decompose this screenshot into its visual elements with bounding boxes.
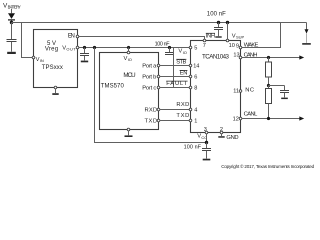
svg-text:Port b: Port b	[142, 74, 156, 80]
regulator U1 TPSxxx box	[34, 30, 78, 88]
svg-text:EN: EN	[68, 34, 75, 40]
wire VCC feed down and right	[95, 48, 207, 143]
wire battery rail	[12, 22, 307, 24]
wire EN net TPS EN to TCAN INH	[79, 37, 205, 40]
svg-text:IO: IO	[128, 57, 132, 62]
svg-text:14: 14	[193, 64, 199, 70]
svg-text:100 nF: 100 nF	[184, 145, 202, 151]
pin VOUT of U1	[62, 45, 76, 51]
pin 10 VSUP	[226, 39, 229, 42]
ground under C3	[215, 36, 221, 37]
svg-text:8: 8	[194, 86, 197, 92]
svg-text:Copyright © 2017, Texas Instru: Copyright © 2017, Texas Instruments Inco…	[221, 163, 314, 169]
wire MCU VIO drop	[128, 48, 130, 52]
wire WAKE to battery rail	[242, 23, 281, 48]
svg-text:7: 7	[203, 43, 206, 49]
node dot CANH termination	[267, 56, 270, 59]
pin 6 EN	[189, 75, 192, 78]
node VBATTERY label	[3, 2, 21, 9]
svg-text:100 nF: 100 nF	[155, 41, 171, 47]
capacitor C1 input	[11, 23, 13, 40]
wire diode to rail	[11, 21, 13, 23]
pin 7 INH	[203, 39, 206, 42]
wire TXD net	[160, 120, 189, 122]
pin 2 GND	[220, 131, 223, 134]
svg-text:4: 4	[194, 108, 197, 114]
node dot VCC rail	[205, 141, 208, 144]
svg-text:GND: GND	[226, 135, 238, 141]
ground under MCU	[125, 135, 133, 137]
svg-text:11: 11	[233, 88, 239, 94]
pin 12 CANL	[239, 117, 242, 120]
svg-text:TPSxxx: TPSxxx	[42, 65, 63, 71]
wire Port a to STB	[160, 65, 189, 67]
capacitor C3 battery	[218, 23, 220, 28]
svg-text:MCU: MCU	[123, 72, 135, 79]
wire nFAULT pull-up riser	[173, 48, 175, 88]
pin 1 TXD	[189, 119, 192, 122]
ground under U1	[52, 93, 58, 95]
wire VSUP drop	[227, 23, 229, 40]
svg-text:TMS570: TMS570	[101, 83, 125, 89]
svg-text:2: 2	[220, 127, 223, 133]
wire VCC pin to rail	[206, 134, 208, 143]
svg-text:EN: EN	[180, 71, 188, 77]
wire CANL bus	[242, 118, 300, 120]
node dot battery cap	[217, 21, 220, 24]
svg-text:13: 13	[233, 53, 239, 59]
wire RXD net	[160, 109, 189, 111]
switch arrow	[305, 29, 309, 33]
svg-text:3: 3	[204, 127, 207, 133]
node dot C2	[83, 46, 86, 49]
wire VIN branch	[22, 23, 33, 58]
arrow CANL	[299, 116, 304, 120]
svg-text:INH: INH	[206, 33, 215, 39]
wire Port c to nFAULT	[160, 87, 189, 89]
node battery junction	[10, 21, 13, 24]
node dot VSUP	[226, 21, 229, 24]
svg-text:TCAN1043: TCAN1043	[202, 53, 230, 60]
svg-text:1: 1	[194, 119, 197, 125]
transceiver U3 TCAN1043 box	[191, 41, 241, 133]
diode D1	[8, 13, 15, 20]
svg-text:STB: STB	[176, 59, 186, 65]
svg-text:BATTERY: BATTERY	[8, 5, 21, 10]
node dot VCC feed	[93, 46, 96, 49]
svg-text:TXD: TXD	[176, 113, 189, 119]
svg-text:10: 10	[229, 43, 235, 49]
pin 3 VCC	[205, 131, 208, 134]
svg-text:Vreg: Vreg	[45, 47, 58, 53]
wire split to C6	[269, 85, 285, 87]
node dot CANL termination	[267, 117, 270, 120]
pin 4 RXD	[189, 108, 192, 111]
pin 5 VIO	[189, 46, 192, 49]
svg-text:RXD: RXD	[176, 102, 189, 108]
ground under C6	[281, 98, 288, 100]
svg-text:5: 5	[194, 45, 197, 51]
node dot VIO cap	[168, 46, 171, 49]
wire Port b to EN	[160, 76, 189, 78]
wire 5V VOUT net	[79, 47, 189, 49]
svg-text:IN: IN	[40, 58, 44, 63]
svg-text:CANL: CANL	[244, 112, 259, 118]
pin 13 CANH	[239, 56, 242, 59]
svg-text:SUP: SUP	[236, 34, 245, 39]
resistor R2 termination	[268, 86, 270, 89]
svg-text:Port c: Port c	[142, 85, 156, 91]
svg-text:IO: IO	[183, 50, 187, 55]
pin VIN	[32, 56, 35, 59]
capacitor C6 split termination	[284, 86, 286, 91]
svg-text:9: 9	[236, 43, 239, 49]
svg-text:TXD: TXD	[145, 118, 158, 124]
node dot split termination	[267, 84, 270, 87]
pin U1 GND	[54, 86, 57, 89]
wire CANH bus	[242, 57, 300, 59]
wire battery label to diode	[11, 9, 13, 14]
capacitor C2 5V rail	[84, 48, 86, 54]
svg-text:FAULT: FAULT	[166, 81, 187, 87]
node dot MCU VIO	[127, 46, 130, 49]
pin 8 nFAULT	[189, 86, 192, 89]
ground under C5	[203, 159, 211, 161]
arrow CANH	[299, 55, 304, 59]
capacitor C4 VIO	[169, 48, 171, 53]
svg-text:OUT: OUT	[66, 47, 76, 52]
svg-text:12: 12	[233, 116, 239, 122]
pin MCU GND	[127, 128, 130, 131]
pin MCU VIO	[127, 51, 130, 54]
ground under C2	[81, 61, 88, 63]
ground under C1	[7, 52, 16, 54]
pin 11 NC	[239, 90, 242, 93]
svg-text:100 nF: 100 nF	[207, 12, 226, 18]
ground under GND pin	[218, 136, 224, 138]
capacitor C5 VCC	[206, 143, 208, 149]
svg-text:6: 6	[194, 75, 197, 81]
svg-text:Port a: Port a	[142, 63, 157, 69]
pin 14 STB	[189, 64, 192, 67]
MCU U2 TMS570 box	[100, 53, 159, 130]
pin 9 WAKE	[239, 46, 242, 49]
wire rail end switch symbol	[306, 23, 308, 31]
svg-text:NC: NC	[245, 88, 254, 94]
svg-text:RXD: RXD	[145, 107, 158, 113]
resistor R1 termination	[268, 58, 270, 63]
switch contact bar	[302, 43, 311, 45]
